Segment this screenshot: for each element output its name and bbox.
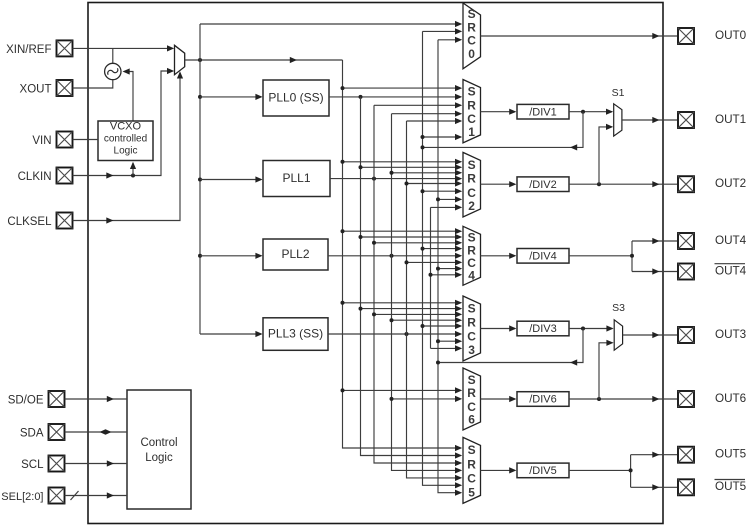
pin OUT4 xyxy=(678,233,694,249)
wire SRC6 in1 junction xyxy=(341,388,345,392)
arrowhead mux output xyxy=(290,57,297,63)
wire distribution vertical xyxy=(199,24,201,334)
wire SRC to DIV2 xyxy=(481,183,516,185)
mux SRC0 letters xyxy=(467,7,476,61)
wire SRC0 in3 xyxy=(438,39,461,41)
wire SRC2 in6 arrowhead xyxy=(455,188,462,194)
pin XIN/REF xyxy=(57,40,73,56)
wire SRC6 in2 junction xyxy=(390,397,394,401)
wire OUT6 xyxy=(569,398,677,400)
wire PLL1 input xyxy=(200,179,261,181)
wire SRC4 in7 xyxy=(438,268,461,270)
svg-text:/DIV4: /DIV4 xyxy=(529,251,557,263)
svg-text:3: 3 xyxy=(468,343,475,357)
svg-text:4: 4 xyxy=(468,268,475,282)
wire bus V3 PLL1 xyxy=(374,105,461,463)
wire SRC4 in1 junction xyxy=(341,229,345,233)
divider /DIV2 box xyxy=(517,177,569,192)
wire SRC4 in6 xyxy=(407,261,461,263)
wire SRC4 in2 junction xyxy=(359,235,363,239)
wire SRC to DIV6 xyxy=(481,398,516,400)
wire S1 to OUT1 xyxy=(622,119,677,121)
wire SRC4 in2 xyxy=(361,236,461,238)
wire SRC2 in3 arrowhead xyxy=(455,170,462,176)
svg-text:OUT5: OUT5 xyxy=(715,480,746,493)
svg-text:CLKSEL: CLKSEL xyxy=(7,216,52,228)
wire SRC2 in8 arrowhead xyxy=(455,204,462,210)
wire SRC4 in4 junction xyxy=(421,247,425,251)
svg-text:R: R xyxy=(467,386,476,400)
wire SRC4 in8 xyxy=(431,274,461,276)
wire SRC2 in2 junction xyxy=(359,165,363,169)
arrowhead PLL1 in xyxy=(255,176,262,182)
svg-text:C: C xyxy=(467,472,476,486)
mux SRC0 xyxy=(463,3,481,69)
svg-text:SD/OE: SD/OE xyxy=(8,395,44,407)
wire SRC1 in6 junction xyxy=(421,135,425,139)
svg-text:1: 1 xyxy=(468,125,475,139)
chip boundary xyxy=(88,3,663,524)
arrowhead OUT2 xyxy=(652,181,659,187)
pin SCL xyxy=(49,456,65,472)
mux S1 xyxy=(614,104,622,136)
overline OUT4 xyxy=(715,263,746,265)
arrowhead PLL3 in xyxy=(255,331,262,337)
svg-text:CLKIN: CLKIN xyxy=(18,171,52,183)
svg-text:SDA: SDA xyxy=(20,428,44,440)
arrowhead into input mux xyxy=(167,45,174,51)
wire SRC to DIV4 xyxy=(481,255,516,257)
arrowhead S3 in1 xyxy=(606,325,613,331)
svg-text:2: 2 xyxy=(468,199,475,213)
wire SRC2 in7 arrowhead xyxy=(455,196,462,202)
svg-text:OUT5: OUT5 xyxy=(715,448,746,461)
wire SRC4 in3 arrowhead xyxy=(455,240,462,246)
svg-text:S: S xyxy=(468,85,476,99)
arrowhead CLKSEL into mux select xyxy=(177,71,183,78)
junction CLKIN to VCXO xyxy=(131,174,135,178)
wire SD/OE xyxy=(65,398,128,400)
wire SRC2 in1 junction xyxy=(341,160,345,164)
wire SRC3 in7 junction xyxy=(436,339,440,343)
svg-text:controlled: controlled xyxy=(104,134,147,145)
wire SRC2 in5 arrowhead xyxy=(455,180,462,186)
wire SDA xyxy=(65,431,128,433)
wire osc drop xyxy=(112,48,114,63)
wire SRC3 in4 arrowhead xyxy=(455,317,462,323)
svg-text:S: S xyxy=(468,7,476,21)
wire PLL2 input xyxy=(200,255,261,257)
arrowhead S1 in2 xyxy=(606,124,613,130)
arrowhead SDA bidirectional xyxy=(100,429,112,435)
overline OUT5 xyxy=(715,479,746,481)
arrowhead SRC5 row y463 xyxy=(455,460,462,466)
wire SRC3 in8 xyxy=(431,347,461,349)
PLL3 box xyxy=(263,318,328,351)
wire SRC6 in1 arrowhead xyxy=(455,387,462,393)
wire SRC3 in2 junction xyxy=(359,307,363,311)
svg-text:OUT0: OUT0 xyxy=(715,29,746,42)
arrowhead into DIV3 xyxy=(509,325,516,331)
junction OUT5 branch xyxy=(629,468,633,472)
wire SRC1 in3 arrowhead xyxy=(455,102,462,108)
arrowhead PLL0 in xyxy=(255,94,262,100)
wire SRC1 in6 xyxy=(423,136,461,138)
wire SRC2 in6 xyxy=(423,190,461,192)
junction PLL2/V4 xyxy=(390,254,394,258)
svg-text:OUT6: OUT6 xyxy=(715,392,746,405)
input reference mux xyxy=(175,45,185,74)
wire mux output xyxy=(185,59,343,61)
wire SRC6 in1 xyxy=(343,389,461,391)
svg-text:VCXO: VCXO xyxy=(110,120,142,132)
svg-text:5: 5 xyxy=(468,485,475,499)
arrowhead SD/OE xyxy=(107,396,114,402)
junction PLL input y96.9 xyxy=(198,95,202,99)
wire PLL0 output xyxy=(329,96,461,98)
wire SCL xyxy=(65,463,128,465)
svg-text:R: R xyxy=(467,98,476,112)
wire SRC3 in1 xyxy=(343,302,461,304)
pin OUT5bar xyxy=(678,479,694,495)
wire SRC1 in1 arrowhead xyxy=(455,85,462,91)
wire bus V4 PLL2 xyxy=(392,114,461,471)
arrowhead into DIV1 xyxy=(509,109,516,115)
wire SRC3 in5 xyxy=(423,325,461,327)
arrowhead feedback DIV1 xyxy=(570,144,577,150)
mux SRC2 xyxy=(463,152,481,217)
arrowhead SRC2 in4 xyxy=(455,176,462,182)
svg-text:R: R xyxy=(467,457,476,471)
arrowhead SRC5 row y455.5 xyxy=(455,452,462,458)
arrowhead PLL2 in xyxy=(255,253,262,259)
wire SRC3 in3 junction xyxy=(372,312,376,316)
wire SRC2 in2 arrowhead xyxy=(455,164,462,170)
wire SRC to DIV5 xyxy=(481,469,516,471)
junction OUT6 to S3 xyxy=(597,397,601,401)
wire SRC0 in2 xyxy=(423,30,461,32)
wire SRC3 in4 xyxy=(392,319,461,321)
arrowhead S3 in2 xyxy=(606,340,613,346)
svg-text:R: R xyxy=(467,20,476,34)
arrowhead OUT6 xyxy=(652,396,659,402)
svg-text:S1: S1 xyxy=(612,87,625,99)
svg-text:/DIV3: /DIV3 xyxy=(529,323,557,335)
oscillator symbol xyxy=(105,63,121,79)
mux SRC5 xyxy=(463,437,481,503)
svg-text:VIN: VIN xyxy=(32,135,51,147)
wire SRC3 in8 arrowhead xyxy=(455,345,462,351)
mux SRC4 xyxy=(463,226,481,285)
svg-text:R: R xyxy=(467,172,476,186)
mux SRC1 letters xyxy=(467,85,476,140)
wire SEL[2:0] xyxy=(65,495,128,497)
wire CLKIN xyxy=(73,71,173,176)
PLL1 box xyxy=(263,161,330,197)
wire SRC1 in4 arrowhead xyxy=(455,111,462,117)
mux SRC3 xyxy=(463,296,481,361)
wire feedback DIV3 xyxy=(438,329,583,363)
arrowhead CLKIN xyxy=(106,172,113,178)
wire SRC3 in1 junction xyxy=(341,301,345,305)
pin OUT3 xyxy=(678,327,694,343)
svg-text:6: 6 xyxy=(468,412,475,426)
wire OUT2 xyxy=(569,183,677,185)
wire SRC2 in7 junction xyxy=(436,197,440,201)
wire SRC4 in6 junction xyxy=(405,260,409,264)
pin OUT1 xyxy=(678,112,694,128)
mux S3 xyxy=(614,320,622,350)
wire SRC4 in8 junction xyxy=(429,273,433,277)
junction DIV1 feedback xyxy=(581,110,585,114)
arrowhead into DIV6 xyxy=(509,396,516,402)
svg-text:R: R xyxy=(467,243,476,257)
divider /DIV1 box xyxy=(517,104,569,119)
wire CLKIN up to VCXO xyxy=(132,163,134,176)
wire PLL3 input xyxy=(200,333,261,335)
junction PLL input y179.5 xyxy=(198,178,202,182)
wire SRC1 in4 xyxy=(392,113,461,115)
VCXO controlled Logic box xyxy=(98,121,153,161)
mux SRC2 letters xyxy=(467,158,476,213)
svg-text:PLL0 (SS): PLL0 (SS) xyxy=(268,91,323,105)
wire VIN to VCXO xyxy=(73,139,99,141)
wire SRC3 in4 junction xyxy=(390,318,394,322)
wire SRC2 in6 junction xyxy=(421,189,425,193)
wire SRC3 in2 arrowhead xyxy=(455,306,462,312)
wire SRC4 in7 junction xyxy=(436,267,440,271)
svg-text:OUT3: OUT3 xyxy=(715,328,746,341)
arrowhead SRC3 in6 xyxy=(455,331,462,337)
arrowhead SRC5 row y470.4 xyxy=(455,467,462,473)
wire SRC1 in5 arrowhead xyxy=(455,118,462,124)
wire SRC2 in1 xyxy=(343,161,461,163)
wire SRC4 in4 arrowhead xyxy=(455,246,462,252)
mux SRC3 letters xyxy=(467,301,476,357)
wire SRC4 in6 arrowhead xyxy=(455,259,462,265)
junction distribution at mux out xyxy=(198,58,202,62)
pin VIN xyxy=(57,132,73,148)
arrowhead SRC5 row y492.7 xyxy=(455,490,462,496)
wire SRC4 in3 xyxy=(374,242,461,244)
arrowhead SRC0 in1 xyxy=(455,21,462,27)
wire VCXO to osc xyxy=(129,72,133,122)
wire PLL1 output xyxy=(330,178,461,180)
junction OUT4 branch xyxy=(630,254,634,258)
arrowhead SRC5 row y448 xyxy=(455,445,462,451)
svg-text:OUT1: OUT1 xyxy=(715,113,746,126)
arrowhead SCL xyxy=(107,460,114,466)
junction PLL3/V5 xyxy=(405,332,409,336)
svg-text:/DIV6: /DIV6 xyxy=(529,394,557,406)
divider /DIV5 box xyxy=(517,463,569,478)
arrowhead OUT0 xyxy=(652,33,659,39)
svg-text:XIN/REF: XIN/REF xyxy=(6,44,51,56)
wire SRC1 in3 xyxy=(374,104,461,106)
wire SRC1 in6 arrowhead xyxy=(455,134,462,140)
svg-text:Logic: Logic xyxy=(114,146,138,157)
PLL0 box xyxy=(263,80,329,116)
wire SRC3 in2 xyxy=(361,308,461,310)
wire SRC3 in5 junction xyxy=(421,324,425,328)
wire SRC3 in7 xyxy=(438,340,461,342)
wire PLL3 output xyxy=(328,333,461,335)
svg-text:C: C xyxy=(467,330,476,344)
pin OUT5 xyxy=(678,447,694,463)
wire SRC1 in1 junction xyxy=(341,86,345,90)
svg-text:XOUT: XOUT xyxy=(20,84,52,96)
arrowhead into DIV4 xyxy=(509,253,516,259)
wire SRC6 in2 arrowhead xyxy=(455,396,462,402)
wire SRC2 in7 xyxy=(438,198,461,200)
wire SRC3 in3 arrowhead xyxy=(455,311,462,317)
pin OUT2 xyxy=(678,176,694,192)
pin OUT6 xyxy=(678,391,694,407)
junction PLL0/V2 xyxy=(359,95,363,99)
arrowhead OUT5 xyxy=(652,452,659,458)
wire DIV5 branch xyxy=(569,455,677,488)
svg-text:PLL2: PLL2 xyxy=(281,247,309,261)
wire SRC1 in1 xyxy=(343,87,461,89)
svg-text:C: C xyxy=(467,112,476,126)
wire DIV3 to S3 xyxy=(569,328,612,330)
junction fb3 on V8 xyxy=(436,361,440,365)
svg-text:SEL[2:0]: SEL[2:0] xyxy=(1,491,43,503)
arrowhead SRC5 row y477.9 xyxy=(455,475,462,481)
svg-text:C: C xyxy=(467,186,476,200)
arrowhead OUT4bar xyxy=(652,268,659,274)
wire S1 in2 xyxy=(599,127,612,184)
pin XOUT xyxy=(57,80,73,96)
wire SRC3 in7 arrowhead xyxy=(455,338,462,344)
pin SD/OE xyxy=(49,391,65,407)
wire SRC to DIV3 xyxy=(481,328,516,330)
arrowhead OUT3 xyxy=(652,332,659,338)
wire SRC2 in2 xyxy=(361,166,461,168)
wire DIV1 to S1 xyxy=(569,111,612,113)
svg-text:S: S xyxy=(468,158,476,172)
svg-text:SCL: SCL xyxy=(21,459,44,471)
svg-text:/DIV5: /DIV5 xyxy=(529,465,557,477)
svg-text:S3: S3 xyxy=(612,302,625,314)
arrowhead OUT5bar xyxy=(652,484,659,490)
svg-text:OUT2: OUT2 xyxy=(715,177,746,190)
svg-text:OUT4: OUT4 xyxy=(715,264,746,277)
wire PLL2 output xyxy=(328,255,461,257)
wire S3 to OUT3 xyxy=(623,334,677,336)
wire SRC4 in7 arrowhead xyxy=(455,266,462,272)
svg-text:Control: Control xyxy=(140,437,177,449)
svg-text:/DIV2: /DIV2 xyxy=(529,179,557,191)
arrowhead SRC4 in5 xyxy=(455,253,462,259)
wire XOUT to osc xyxy=(73,80,113,88)
wire top line to SRC0 xyxy=(200,23,461,25)
wire bus V5 PLL3 xyxy=(407,121,461,478)
junction DIV3 feedback xyxy=(581,327,585,331)
wire SRC2 in5 xyxy=(407,183,461,185)
wire SRC6 in2 xyxy=(392,398,461,400)
arrowhead CLKIN into mux xyxy=(167,68,174,74)
wire bus V8 fb3 xyxy=(438,40,461,493)
wire SRC0 in2 arrowhead xyxy=(455,28,462,34)
pin OUT0 xyxy=(678,28,694,44)
arrowhead into DIV5 xyxy=(509,467,516,473)
mux SRC6 letters xyxy=(467,373,476,427)
mux SRC4 letters xyxy=(467,231,476,283)
arrowhead CLKSEL xyxy=(106,217,113,223)
arrowhead SRC1 in2 xyxy=(455,94,462,100)
wire SRC to DIV1 xyxy=(481,111,516,113)
junction OUT2 to S1 xyxy=(597,182,601,186)
wire SRC2 in3 xyxy=(392,172,461,174)
mux SRC6 xyxy=(463,368,481,430)
svg-text:S: S xyxy=(468,443,476,457)
wire S3 in2 xyxy=(599,343,612,399)
svg-text:/DIV1: /DIV1 xyxy=(529,106,557,118)
wire SRC1 in5 xyxy=(407,120,461,122)
Control Logic box xyxy=(127,390,191,509)
wire OUT0 xyxy=(481,35,678,37)
arrowhead into DIV2 xyxy=(509,181,516,187)
pin SDA xyxy=(49,424,65,440)
wire SRC0 in3 arrowhead xyxy=(455,37,462,43)
wire feedback DIV1 xyxy=(423,112,584,148)
bus-width slash SEL[2:0] xyxy=(71,491,79,500)
wire SRC3 in1 arrowhead xyxy=(455,300,462,306)
svg-text:PLL3 (SS): PLL3 (SS) xyxy=(268,327,323,341)
wire SRC4 in1 arrowhead xyxy=(455,228,462,234)
divider /DIV4 box xyxy=(517,249,569,264)
wire SRC2 in3 junction xyxy=(390,171,394,175)
svg-text:C: C xyxy=(467,34,476,48)
wire SRC4 in1 xyxy=(343,230,461,232)
wire SRC2 in1 arrowhead xyxy=(455,159,462,165)
wire bus V7 xyxy=(430,207,432,348)
arrowhead S1 in1 xyxy=(606,109,613,115)
wire SRC2 in8 xyxy=(431,206,461,208)
svg-text:S: S xyxy=(468,373,476,387)
arrowhead feedback DIV3 xyxy=(570,359,577,365)
wire DIV4 branch xyxy=(569,241,677,272)
wire SRC3 in5 arrowhead xyxy=(455,323,462,329)
svg-text:R: R xyxy=(467,315,476,329)
arrowhead OUT4 xyxy=(652,238,659,244)
svg-text:OUT4: OUT4 xyxy=(715,234,746,247)
wire XIN/REF to mux xyxy=(73,47,173,49)
arrowhead into VCXO bottom xyxy=(130,162,136,169)
arrowhead into osc xyxy=(123,68,130,74)
junction PLL input y255.8 xyxy=(198,254,202,258)
arrowhead OUT1 xyxy=(652,117,659,123)
wire SRC4 in2 arrowhead xyxy=(455,234,462,240)
wire bus V2 PLL0 xyxy=(361,97,461,456)
wire SRC4 in8 arrowhead xyxy=(455,272,462,278)
wire CLKSEL xyxy=(73,76,181,221)
svg-text:Logic: Logic xyxy=(145,452,173,464)
divider /DIV3 box xyxy=(517,321,569,336)
svg-text:PLL1: PLL1 xyxy=(282,171,310,185)
pin OUT4bar xyxy=(678,264,694,280)
wire SRC4 in3 junction xyxy=(372,241,376,245)
wire bus V6 fb1 xyxy=(423,31,461,485)
wire PLL0 input xyxy=(200,96,261,98)
pin SEL[2:0] xyxy=(49,488,65,504)
mux SRC1 xyxy=(463,80,481,143)
pin CLKIN xyxy=(57,168,73,184)
divider /DIV6 box xyxy=(517,392,569,407)
pin CLKSEL xyxy=(57,213,73,229)
arrowhead SRC5 row y485.3 xyxy=(455,482,462,488)
